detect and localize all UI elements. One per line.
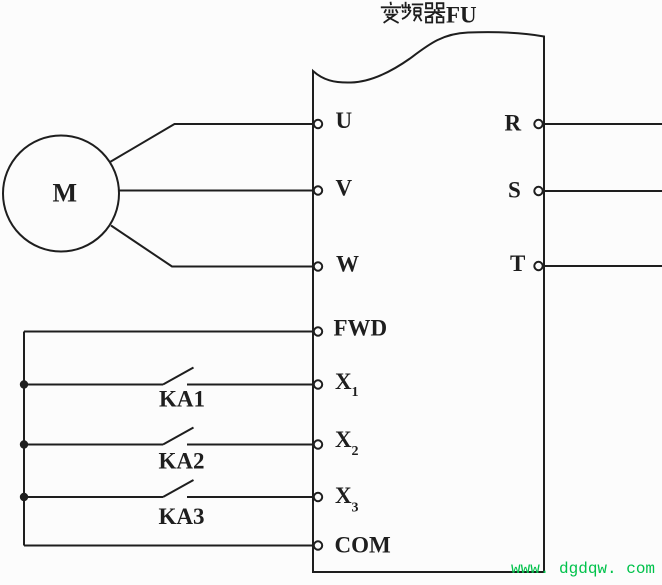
svg-text:FU: FU (446, 3, 477, 28)
svg-text:COM: COM (335, 533, 392, 558)
svg-text:T: T (510, 251, 525, 276)
svg-text:M: M (53, 179, 78, 208)
svg-text:KA3: KA3 (159, 504, 205, 529)
svg-text:FWD: FWD (334, 316, 388, 341)
svg-text:V: V (336, 176, 353, 201)
svg-text:R: R (505, 111, 522, 136)
svg-text:2: 2 (352, 444, 359, 459)
svg-text:S: S (508, 178, 521, 203)
svg-text:W: W (336, 252, 359, 277)
svg-text:KA2: KA2 (159, 449, 205, 474)
svg-text:U: U (336, 108, 353, 133)
svg-text:X: X (335, 369, 352, 394)
svg-text:X: X (335, 427, 352, 452)
svg-text:1: 1 (352, 385, 359, 400)
svg-text:3: 3 (352, 501, 359, 516)
svg-text:KA1: KA1 (159, 387, 205, 412)
svg-text:www. dgdqw. com: www. dgdqw. com (511, 560, 655, 578)
svg-text:X: X (335, 483, 352, 508)
